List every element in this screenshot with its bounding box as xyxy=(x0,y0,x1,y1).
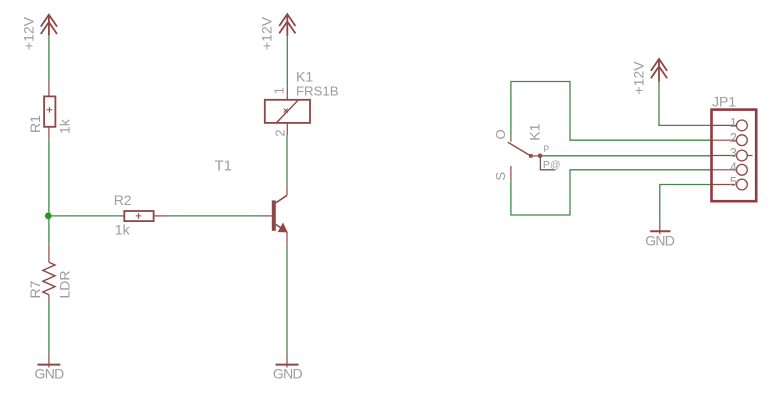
resistor R2 xyxy=(120,211,168,221)
svg-text:+12V: +12V xyxy=(631,61,647,95)
svg-text:5: 5 xyxy=(730,175,737,189)
wire S contact to JP1 pin 4 xyxy=(511,170,712,215)
svg-text:S: S xyxy=(493,172,508,181)
svg-text:GND: GND xyxy=(645,232,675,248)
ground GND (middle) xyxy=(276,353,299,367)
pin 4 (JP1) xyxy=(712,164,748,175)
relay contact K1 xyxy=(508,138,556,179)
svg-text:4: 4 xyxy=(730,161,737,175)
svg-text:R1: R1 xyxy=(27,115,43,133)
resistor R1 xyxy=(44,81,55,139)
resistor R7 (LDR) xyxy=(43,244,55,302)
svg-text:P: P xyxy=(543,144,549,154)
transistor T1 xyxy=(260,185,287,243)
wire T1 emitter to GND xyxy=(286,243,288,353)
wire JP1 pin 5 to GND xyxy=(660,185,712,222)
wire node to R2 xyxy=(49,215,120,217)
svg-text:GND: GND xyxy=(35,366,65,382)
ground GND (left) xyxy=(38,353,61,367)
power +12V supply (middle) xyxy=(279,14,295,36)
ground GND (right) xyxy=(650,221,670,234)
svg-text:LDR: LDR xyxy=(57,270,73,298)
wire R1 to node xyxy=(48,139,50,216)
wire O contact to JP1 pin 2 xyxy=(511,82,712,141)
svg-text:2: 2 xyxy=(272,129,287,136)
wire T1 collector to K1 coil xyxy=(286,135,288,185)
pin 3 (JP1) xyxy=(712,150,753,161)
power +12V supply (left) xyxy=(41,15,57,36)
svg-text:T1: T1 xyxy=(215,158,233,175)
wire K1 coil to supply xyxy=(286,36,288,87)
wire R7 to GND xyxy=(48,302,50,353)
svg-text:+12V: +12V xyxy=(259,16,275,50)
svg-text:1k: 1k xyxy=(115,222,131,238)
svg-text:JP1: JP1 xyxy=(712,94,736,110)
wire node to R7 xyxy=(48,216,50,244)
wire supply to R1 xyxy=(48,35,50,81)
pin 5 (JP1) xyxy=(712,179,748,190)
svg-text:R7: R7 xyxy=(27,280,43,298)
svg-text:+12V: +12V xyxy=(21,16,37,50)
svg-text:R2: R2 xyxy=(114,192,132,208)
wire R2 to T1 base xyxy=(168,215,261,217)
svg-text:1k: 1k xyxy=(57,118,73,134)
svg-text:2: 2 xyxy=(730,131,737,145)
svg-text:GND: GND xyxy=(273,366,303,382)
svg-text:3: 3 xyxy=(730,146,737,160)
svg-text:1: 1 xyxy=(272,87,287,94)
svg-text:O: O xyxy=(493,129,508,139)
wire +12V to JP1 pin 1 xyxy=(659,82,712,126)
svg-text:K1: K1 xyxy=(526,123,542,140)
svg-text:1: 1 xyxy=(730,116,737,130)
pin 2 (JP1) xyxy=(712,135,748,146)
relay coil K1 xyxy=(265,87,310,135)
svg-text:P@: P@ xyxy=(543,159,561,171)
svg-text:FRS1B: FRS1B xyxy=(296,84,339,99)
wire P pole to JP1 pin 3 xyxy=(540,155,711,157)
svg-text:K1: K1 xyxy=(296,69,313,85)
power +12V supply (right) xyxy=(651,59,667,82)
node junction xyxy=(45,213,52,220)
connector JP1 xyxy=(712,110,757,202)
pin 1 (JP1) xyxy=(712,120,748,131)
